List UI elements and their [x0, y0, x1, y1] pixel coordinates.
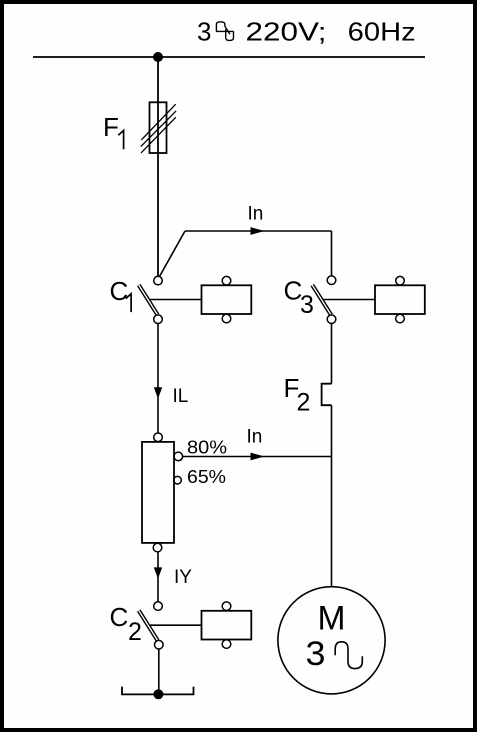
label F2 — [284, 373, 311, 416]
label 3~ — [306, 635, 363, 673]
coil C2 operator box — [202, 602, 252, 648]
wire: C2 to star point — [158, 649, 160, 694]
wire: C1 to autotransformer — [157, 324, 159, 434]
wire: autotransformer to C2 — [157, 552, 159, 602]
wire: C1 blade to coil — [150, 299, 202, 301]
wire: In branch horizontal — [185, 230, 332, 232]
svg-text:3: 3 — [197, 17, 211, 47]
svg-text:In: In — [248, 204, 264, 225]
autotransformer T1 — [142, 433, 174, 552]
wire: In branch diagonal from C1 top — [160, 231, 186, 277]
wire: bus to C1 through F1 — [157, 57, 159, 276]
contactor contact C2 — [138, 602, 164, 649]
svg-text:3: 3 — [300, 291, 314, 319]
label C3 — [284, 275, 314, 319]
label C2 — [110, 602, 142, 646]
svg-text:2: 2 — [297, 389, 311, 417]
wire: In branch down to C3 — [331, 231, 333, 276]
svg-text:65%: 65% — [187, 466, 226, 487]
svg-text:M: M — [318, 600, 346, 638]
arrow IY current direction — [154, 567, 162, 578]
svg-text:F: F — [103, 112, 119, 142]
svg-text:3: 3 — [306, 635, 326, 673]
fuse F2 — [322, 384, 332, 406]
star point bar (neutral) — [122, 687, 194, 695]
svg-text:IY: IY — [174, 567, 192, 588]
label: supply 3-phase 220V 60Hz — [197, 17, 416, 47]
contactor contact C3 — [311, 276, 336, 324]
label C1 — [110, 276, 132, 312]
coil C3 operator box — [375, 276, 425, 323]
coil C1 operator box — [202, 276, 252, 323]
wire: F2 to motor — [331, 405, 333, 586]
fuse F1 — [141, 102, 176, 153]
svg-text:C: C — [110, 276, 129, 306]
arrow: In current direction (tap line) — [251, 453, 265, 461]
svg-text:60Hz: 60Hz — [348, 17, 416, 47]
arrow: In current direction (top) — [251, 227, 265, 235]
contactor contact C1 — [138, 276, 163, 323]
svg-text:IL: IL — [173, 386, 189, 407]
label F1 — [103, 112, 124, 149]
junction: star point dot — [153, 689, 163, 699]
junction: bus tap dot — [153, 52, 163, 62]
tap 65% — [174, 476, 182, 484]
wire: 80% tap to motor branch — [183, 456, 332, 458]
svg-text:220V;: 220V; — [246, 17, 327, 47]
motor M 3ph — [278, 587, 385, 694]
svg-text:C: C — [110, 602, 129, 632]
svg-text:2: 2 — [128, 618, 142, 646]
wire: C3 blade to coil — [324, 299, 376, 301]
svg-text:80%: 80% — [187, 436, 227, 457]
wire: supply bus — [33, 56, 425, 58]
wire: C3 to fuse F2 — [331, 324, 333, 384]
svg-text:In: In — [247, 427, 263, 448]
tap 80% — [174, 452, 183, 461]
arrow IL current direction — [154, 387, 162, 399]
wire: C2 blade to coil — [150, 624, 202, 626]
